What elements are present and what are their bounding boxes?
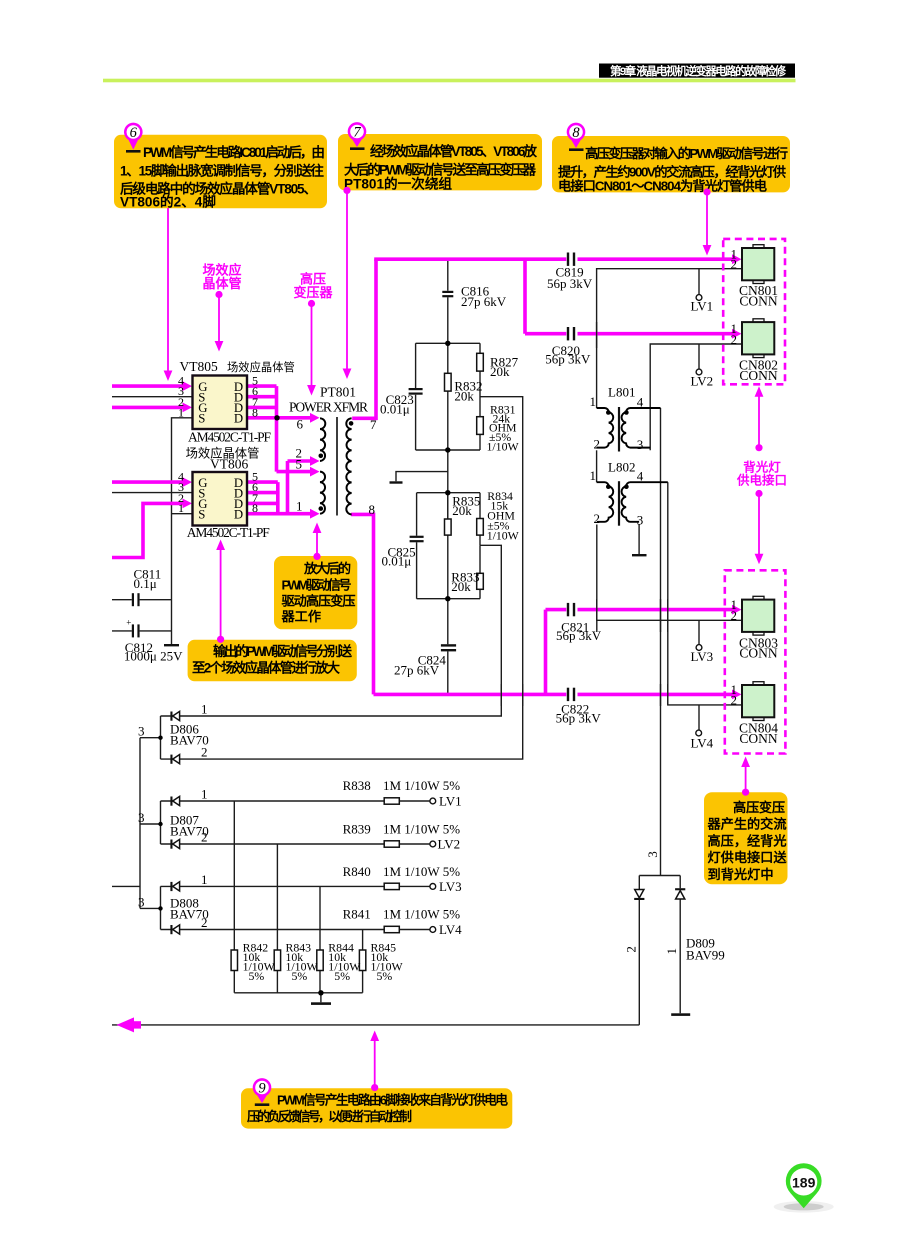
label R843 [286,941,319,984]
svg-text:CONN: CONN [739,731,778,746]
svg-text:压的负反馈信号，以便进行自动控制: 压的负反馈信号，以便进行自动控制 [247,1109,412,1124]
wire LV2 stub [698,344,700,369]
callout 9 balloon marker [253,1078,272,1106]
arrow into VT805 pin2 [183,403,193,413]
svg-text:D: D [234,508,243,522]
arrow into CN804 pin1 [732,690,742,700]
resistor R841 [384,926,399,932]
wire lower divider box rails [417,493,480,599]
svg-text:BAV99: BAV99 [686,948,725,963]
svg-text:CONN: CONN [739,368,778,383]
diode D808 pin1 [170,882,179,891]
svg-text:20k: 20k [451,579,471,594]
callout 7 connector line [343,187,352,379]
label R831 [487,402,520,453]
svg-text:R840: R840 [343,864,371,879]
svg-text:L802: L802 [608,459,635,474]
diode D806 pin2 [170,755,179,764]
svg-text:56p 3kV: 56p 3kV [556,710,602,725]
connector CN802 [742,319,774,358]
transformer PT801 secondary winding [346,418,351,514]
wire crossing overlays (black over magenta) [501,322,668,706]
svg-text:1: 1 [296,498,303,513]
wire row LV4 (D808 pin2, R841) [161,929,430,931]
svg-text:LV1: LV1 [439,794,462,809]
diode D807 pin1 [170,796,179,805]
svg-text:27p 6kV: 27p 6kV [394,662,440,677]
svg-text:输出的PWM驱动信号分别送: 输出的PWM驱动信号分别送 [213,643,353,659]
terminal LV1 right [696,295,702,301]
svg-text:供电接口: 供电接口 [736,473,787,488]
arrow into VT805 pin4 [183,381,193,391]
wire D808 pin1 left stub [112,885,140,887]
capacitor C821 [567,603,575,616]
wire D809 pin2 leg [638,876,640,1025]
svg-text:AM4502C-T1-PF: AM4502C-T1-PF [188,429,271,444]
wire VT806 pin8 to PT801 pin1 [247,512,311,516]
svg-text:5: 5 [296,456,303,471]
svg-text:56p 3kV: 56p 3kV [545,351,591,366]
svg-text:VT805: VT805 [180,359,218,374]
resistor R833 [477,573,484,589]
header chapter bar [103,64,796,83]
svg-text:1000μ 25V: 1000μ 25V [124,648,183,663]
wire R843 branch [276,844,278,993]
svg-text:L801: L801 [608,384,635,399]
ground C812 [164,644,179,646]
resistor R845 [359,950,365,971]
callout mid2 connector [216,540,225,643]
wire bottom rail of R842-R845 [234,993,362,1003]
capacitor C816 [442,291,453,298]
ground L802 pin3 [632,554,647,556]
wire row LV1 (D807 pin1, R838) [161,800,430,802]
svg-text:0.1μ: 0.1μ [134,576,157,591]
label R844 [328,941,361,984]
inductor L801 left winding [597,408,614,448]
arrow into CN802 pin1 [732,329,742,339]
inductor L802 left winding [597,482,614,522]
svg-text:VT806: VT806 [210,457,248,472]
transistor VT806 (AM4502C-T1-PF MOSFET) [193,472,248,526]
svg-text:1: 1 [590,394,597,409]
callout 8 box [552,136,790,194]
wire ground stub upper [396,472,448,482]
svg-text:1M 1/10W 5%: 1M 1/10W 5% [383,864,460,879]
capacitor C825 [410,536,424,543]
svg-text:至2个场效应晶体管进行放大: 至2个场效应晶体管进行放大 [192,659,341,675]
arrow into PT801 pin6 [310,413,320,423]
wire HV bottom bus to CN804 [374,693,734,697]
capacitor C824 [441,644,456,651]
label 背光灯供电接口 (magenta) [736,386,787,564]
svg-text:AM4502C-T1-PF: AM4502C-T1-PF [187,525,270,540]
callout mid1 connector [313,523,322,561]
inductor L801 right winding [622,408,661,448]
capacitor C820 [567,327,575,340]
wire C811 leads [112,599,172,601]
diode D809 pin1 (right, cathode up) [675,888,685,899]
VT805 pin numbers [178,374,258,420]
svg-text:27p 6kV: 27p 6kV [461,294,507,309]
svg-text:5%: 5% [292,969,308,983]
arrow into PT801 pin2 [310,456,320,466]
PT801 phase dots [319,454,324,459]
svg-text:S: S [198,508,205,522]
svg-text:3: 3 [138,724,145,739]
svg-text:变压器: 变压器 [293,285,333,300]
capacitor C822 [567,688,575,701]
label 高压变压器 (magenta) [293,272,333,396]
resistor R831 [477,417,484,435]
svg-text:2: 2 [201,744,208,759]
junction dots [274,415,279,420]
svg-text:CONN: CONN [739,294,778,309]
wire L801 pin4 down to D809 pin3 [660,408,662,876]
svg-text:56p 3kV: 56p 3kV [556,628,602,643]
svg-text:2: 2 [731,693,738,708]
svg-text:4: 4 [637,468,644,483]
svg-text:20k: 20k [490,364,510,379]
wire R832 branch [447,343,449,450]
wire upper divider box rails [416,343,480,450]
label 场效应晶体管 (magenta) [202,263,241,352]
svg-text:提升，产生约900V的交流高压，经背光灯供: 提升，产生约900V的交流高压，经背光灯供 [558,163,787,179]
wire CN802 pin2 net and L801 pin3 [650,344,741,450]
callout boxes [114,122,790,1128]
svg-text:56p 3kV: 56p 3kV [547,276,593,291]
wire PT801 pin8 drop [351,514,373,694]
svg-text:20k: 20k [454,389,474,404]
svg-text:PWM信号产生电路由6脚接收来自背光灯供电电: PWM信号产生电路由6脚接收来自背光灯供电电 [277,1093,508,1108]
connector CN803 [742,596,774,635]
capacitor C823 [409,388,423,395]
wire R835 branch [447,493,449,519]
svg-text:R841: R841 [343,907,371,922]
transformer PT801 core [336,417,338,516]
terminal LV3 right [696,645,702,651]
svg-text:2: 2 [594,511,601,526]
svg-text:1: 1 [590,468,597,483]
svg-text:灯供电接口送: 灯供电接口送 [708,849,788,865]
wire branch to C820 CN802 [525,259,733,334]
svg-text:2: 2 [594,437,601,452]
svg-text:大后的PWM驱动信号送至高压变压器: 大后的PWM驱动信号送至高压变压器 [344,161,536,177]
connector CN801 [742,245,774,284]
callout BR connector [741,757,750,796]
callout 6 balloon marker [124,123,143,153]
resistor R842 [231,950,237,971]
label R834 [487,489,520,542]
resistor R838 [384,798,399,804]
dashed box CN803 CN804 [725,570,786,753]
svg-text:1: 1 [201,787,208,802]
arrow into PT801 pin5 [310,467,320,477]
svg-text:4: 4 [637,394,644,409]
svg-text:LV4: LV4 [691,736,714,751]
callout 9 connector [370,1031,379,1092]
wire VT806 gate pin4 input [112,480,184,484]
diode D806 pin1 [170,711,179,720]
transformer PT801 primary winding B [320,472,325,514]
wire VT805 drain bus [247,386,311,472]
terminal LV2 right [696,369,702,375]
transformer PT801 primary winding A [320,418,325,461]
svg-text:8: 8 [572,125,580,141]
svg-text:3: 3 [637,437,644,452]
svg-text:2: 2 [623,946,638,953]
wire feedback line bottom [112,1024,639,1026]
resistor R839 [384,841,399,847]
wire D809 pin1 leg [679,876,681,1014]
wire VT805 gate pin2 input [112,406,184,410]
svg-text:2: 2 [201,829,208,844]
terminal LV2 left [430,841,436,847]
capacitor C812 polarised [126,618,139,638]
svg-text:5%: 5% [334,969,350,983]
wire VT806 drain bus [247,482,278,514]
wire R833 branch [479,545,481,598]
svg-text:1/10W: 1/10W [487,529,520,543]
svg-text:LV1: LV1 [691,299,714,314]
svg-text:3: 3 [138,810,145,825]
svg-text:S: S [198,412,205,426]
wire C812 leads [112,630,172,632]
svg-text:8: 8 [252,501,258,515]
svg-text:0.01μ: 0.01μ [382,553,412,568]
capacitor C819 [567,253,575,266]
svg-text:1M 1/10W 5%: 1M 1/10W 5% [383,907,460,922]
svg-text:经场效应晶体管VT805、VT806放: 经场效应晶体管VT805、VT806放 [370,143,537,159]
diode D808 pin2 [170,925,179,934]
wire LV4 stub [698,705,700,730]
svg-text:7: 7 [353,125,361,141]
capacitor C811 [132,593,140,606]
svg-text:高压变压: 高压变压 [733,799,785,815]
svg-text:LV4: LV4 [439,922,462,937]
wire VT805 pin1 to source rail [172,418,193,644]
magenta arrowheads [117,254,742,1032]
dashed box CN801 CN802 [723,239,785,384]
callout mid1 放大后的PWM驱动信号 box [274,556,357,629]
svg-text:1: 1 [664,948,679,955]
callout 7 box [338,134,542,192]
wire row LV2 (D807 pin2, R839) [161,843,430,845]
svg-text:7: 7 [370,417,377,432]
terminal LV3 left [430,884,436,890]
wire VT806 pin3 input stub [112,492,193,494]
svg-text:2: 2 [731,608,738,623]
resistor R843 [274,950,280,971]
arrow into VT806 pin2 [183,499,193,509]
svg-text:高压，经背光: 高压，经背光 [708,832,787,848]
diode D807 pin2 [170,839,179,848]
green rule [103,79,796,83]
svg-text:1、15脚输出脉宽调制信号，分别送往: 1、15脚输出脉宽调制信号，分别送往 [120,162,324,178]
svg-text:LV3: LV3 [691,649,714,664]
wire VT805 pin3 input stub [112,396,193,398]
resistor R835 [445,519,452,535]
svg-text:PT801的一次绕组: PT801的一次绕组 [344,176,452,192]
wire D806 bracket and pin3 [140,716,161,759]
svg-text:器工作: 器工作 [281,608,322,624]
svg-text:PWM驱动信号: PWM驱动信号 [282,576,352,592]
callout 8 connector line [703,188,712,255]
wire L801 pin2 to L802 pin1 [596,450,598,482]
callout BR 高压变压器产生 box [704,792,788,884]
wire VT805 pin8 to PT801 pin6 [247,416,311,420]
wire R845 branch [362,930,364,993]
wire PT801 pin7 riser [352,259,376,418]
wire C823 branch [415,343,417,450]
svg-text:驱动高压变压: 驱动高压变压 [282,593,356,609]
svg-text:PT801: PT801 [320,385,356,400]
svg-text:5%: 5% [249,969,265,983]
inductor L802 right winding [622,482,668,522]
svg-text:1M 1/10W 5%: 1M 1/10W 5% [383,778,460,793]
wire LV3 stub [698,620,700,644]
wire VT806 pin1 stub [172,513,193,515]
svg-text:1/10W: 1/10W [487,439,520,453]
wire PT801 pin2 riser [288,461,312,514]
resistor R832 [445,373,452,391]
wires magenta [112,259,733,694]
svg-text:1: 1 [178,405,184,419]
svg-text:R839: R839 [343,821,371,836]
wire L802 pin4 to CN804 pin2 [668,482,741,705]
svg-text:高压变压器对输入的PWM驱动信号进行: 高压变压器对输入的PWM驱动信号进行 [585,145,788,161]
wire centre column and C824 [447,450,449,694]
svg-text:20k: 20k [452,503,472,518]
svg-text:2: 2 [201,915,208,930]
svg-text:1: 1 [178,501,184,515]
page pin 189 [774,1163,834,1212]
wires black [112,259,741,1025]
svg-text:3: 3 [138,894,145,909]
resistor R840 [384,883,399,889]
svg-text:晶体管: 晶体管 [202,276,241,291]
svg-text:+: + [126,618,131,628]
wire row LV3 (D808 pin1, R840) [161,885,430,887]
L802 phase dots [606,484,611,489]
callout 8 balloon marker [567,123,586,151]
svg-text:9: 9 [258,1081,266,1097]
svg-text:背光灯: 背光灯 [743,460,781,475]
wire L802 pin3 to ground [638,525,640,555]
svg-text:8: 8 [252,405,258,419]
svg-text:第9章 液晶电视机逆变器电路的故障检修: 第9章 液晶电视机逆变器电路的故障检修 [610,64,787,78]
connector CN804 [742,682,774,721]
svg-text:电接口CN801～CN804为背光灯管供电: 电接口CN801～CN804为背光灯管供电 [558,178,768,194]
wire HV top bus to CN801 [374,257,733,261]
svg-text:3: 3 [637,512,644,527]
svg-text:D: D [234,412,243,426]
svg-text:R838: R838 [343,778,371,793]
wire C816 branch [447,259,449,343]
svg-text:CONN: CONN [739,646,778,661]
resistor R834 [477,519,484,536]
svg-text:到背光灯中: 到背光灯中 [708,866,774,882]
svg-text:0.01μ: 0.01μ [380,402,410,417]
transistor VT805 (AM4502C-T1-PF MOSFET) [193,376,248,430]
svg-text:1M 1/10W 5%: 1M 1/10W 5% [383,821,460,836]
callout 9 box [241,1088,512,1128]
wire R844 branch [319,886,321,992]
svg-text:2: 2 [731,332,738,347]
wire D809 tee bar [639,875,680,877]
svg-text:LV2: LV2 [691,374,714,389]
svg-text:LV2: LV2 [438,837,461,852]
svg-text:5%: 5% [377,969,393,983]
svg-text:6: 6 [130,125,138,141]
callout 6 connector line [164,208,173,381]
svg-text:8: 8 [369,502,376,517]
wire D807 bracket and pin3 [140,801,161,844]
svg-text:1: 1 [201,702,208,717]
wire diode common rail left [139,738,141,909]
wire R834 branch and tap to D806 pin1 [161,493,502,716]
wire R842 branch [233,801,235,993]
ground R842 rail [311,1002,331,1005]
svg-text:放大后的: 放大后的 [303,560,351,576]
wire L802 pin2 to CN803 pin2 [597,525,741,621]
inductor L801 core [618,407,620,452]
wire R827 R831 branch [479,343,481,450]
svg-text:1: 1 [201,872,208,887]
terminal LV4 left [430,927,436,933]
wire LV1 stub [698,269,700,295]
svg-text:场效应晶体管: 场效应晶体管 [227,360,295,374]
arrow into CN803 pin1 [732,605,742,615]
label R845 [371,941,404,984]
terminal LV4 right [696,730,702,736]
wire C825 branch [416,493,418,599]
ground D809 [671,1013,690,1016]
svg-text:器产生的交流: 器产生的交流 [707,816,787,832]
svg-text:LV3: LV3 [439,879,462,894]
svg-text:3: 3 [645,851,660,858]
svg-text:6: 6 [297,417,304,432]
VT806 pin numbers [178,470,258,516]
callout mid2 输出的PWM驱动信号 box [188,640,357,682]
svg-text:PWM信号产生电路IC801启动后，由: PWM信号产生电路IC801启动后，由 [143,144,325,160]
diode D809 pin2 (left, cathode down) [634,890,644,901]
label R842 [243,941,276,984]
ground upper box [390,481,403,483]
terminal LV1 left [430,798,436,804]
L801 phase dots [606,410,611,415]
svg-text:189: 189 [792,1174,816,1190]
wire branch to C821 CN803 [546,610,734,695]
arrow into CN801 pin1 [732,254,742,264]
arrow into PT801 pin1 [310,509,320,519]
svg-text:VT806的2、4脚: VT806的2、4脚 [120,194,216,210]
arrow feedback output left [117,1017,135,1032]
callout 7 balloon marker [348,122,367,150]
resistor R827 [477,353,484,371]
wire CN801 pin2 net and L801 pin1 [597,269,741,408]
arrow into VT806 pin4 [183,477,193,487]
svg-text:2: 2 [731,257,738,272]
resistor R844 [317,950,323,971]
wire VT806 gate pin2 input elbow [112,503,184,557]
wire VT805 gate pin4 input [112,384,184,388]
wire R831 tap to D806 pin2 [161,397,523,759]
svg-text:POWER XFMR: POWER XFMR [289,400,368,415]
wire D808 bracket and pin3 [140,886,161,929]
callout 6 box [114,135,327,210]
inductor L802 core [618,481,620,526]
